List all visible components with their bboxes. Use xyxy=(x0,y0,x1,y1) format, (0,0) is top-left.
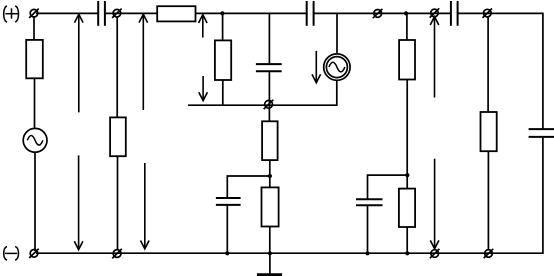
node (+) label xyxy=(4,6,19,22)
resistor R6 xyxy=(262,187,279,226)
wire V1 to bottom terminal xyxy=(34,152,36,251)
wire x=407 column top rail to R7 xyxy=(406,13,408,40)
junction dot bottom rail at x=227 xyxy=(225,251,229,255)
capacitor C6 xyxy=(356,199,383,205)
current arrow up at x=434 xyxy=(430,17,439,98)
current arrow down at x=435 bottom xyxy=(430,159,439,249)
resistor R3 xyxy=(110,117,126,156)
terminal bottom rail at x=117 xyxy=(112,249,122,258)
current arrow down at x=145 bottom xyxy=(141,163,150,249)
ground bar xyxy=(257,273,282,276)
capacitor C3 xyxy=(451,1,458,26)
terminal bottom rail at x=435 xyxy=(430,249,440,258)
terminal top rail at x=487 xyxy=(483,9,493,18)
capacitor C5 xyxy=(216,198,241,205)
source V1 xyxy=(23,128,47,152)
wire top rail segment 4 xyxy=(314,12,451,14)
wire R9 to bottom terminal xyxy=(487,151,489,250)
wire C6 to bottom rail xyxy=(367,205,369,253)
capacitor C2 xyxy=(307,1,314,26)
junction dot top rail at R4 column xyxy=(220,11,224,15)
wire top rail segment 5 and right edge down to C7 xyxy=(458,13,543,129)
wire top rail segment 1 xyxy=(36,12,98,14)
capacitor C4 xyxy=(256,64,282,71)
wire R4 to mid rail xyxy=(222,80,224,105)
terminal (-) output xyxy=(29,249,39,258)
terminal top rail at x=378 xyxy=(373,9,383,18)
wire R8 to bottom rail xyxy=(406,227,408,253)
wire C4 to mid rail and down to R5 xyxy=(268,71,270,121)
resistor R1 xyxy=(157,6,195,21)
junction dot at x=270 y=176 xyxy=(268,174,272,178)
current arrow up at x=143 xyxy=(139,14,148,110)
wire R3 to bottom rail xyxy=(117,156,119,250)
wire x=269 column top rail to C4 xyxy=(268,13,270,64)
wire R7 down to junction at y=175 xyxy=(406,80,408,189)
wire mid rail xyxy=(188,80,337,105)
current source I1 xyxy=(324,54,350,80)
resistor R8 xyxy=(399,189,415,227)
wire x=222 column top rail to R4 xyxy=(222,13,224,40)
resistor R4 xyxy=(215,40,231,80)
junction dot bottom rail at x=270 xyxy=(268,251,272,255)
wire R6 to bottom rail xyxy=(269,227,271,254)
junction dot bottom rail at x=407 xyxy=(405,251,409,255)
wire junction to C6 branch xyxy=(368,175,408,199)
current arrow down at x=316 xyxy=(312,51,321,83)
wire R5 to junction xyxy=(269,160,271,187)
resistor R2 xyxy=(26,40,43,78)
capacitor C1 xyxy=(98,1,105,26)
junction dot top rail at R7 column xyxy=(404,11,408,15)
junction dot at x=407 y=175 xyxy=(405,173,409,177)
resistor R9 xyxy=(481,112,497,151)
resistor R5 xyxy=(262,121,278,160)
wire right edge below C7 to bottom rail corner xyxy=(36,137,543,253)
wire top rail segment 2 xyxy=(105,12,157,14)
wire left column below (+) terminal xyxy=(33,17,35,40)
terminal top rail at x=434 xyxy=(430,8,440,17)
wire top rail segment 3 xyxy=(196,12,307,14)
wire C5 to bottom rail xyxy=(226,205,228,253)
junction dot bottom rail at x=367 xyxy=(365,251,369,255)
terminal top rail at x=117 xyxy=(112,9,122,18)
resistor R7 xyxy=(399,40,415,80)
current arrow up at x=203 xyxy=(199,15,208,38)
node (-) label xyxy=(4,246,19,260)
terminal (+) input xyxy=(29,9,39,18)
wire top rail to current source I1 xyxy=(336,13,338,53)
terminal mid rail xyxy=(264,100,274,109)
ground stub xyxy=(269,253,271,273)
wire junction to C5 branch xyxy=(227,176,270,198)
wire x=488 column top terminal to R9 xyxy=(487,17,489,112)
current arrow down at x=203 mid xyxy=(199,76,208,101)
wire R2 to source V1 xyxy=(34,78,36,128)
wire x=117 column down to R3 xyxy=(116,17,118,117)
current arrow down at x=79 bottom xyxy=(74,155,83,249)
current arrow up at x=79 xyxy=(75,14,84,112)
capacitor C7 far right xyxy=(529,129,554,137)
terminal bottom rail at x=488 xyxy=(484,249,494,258)
